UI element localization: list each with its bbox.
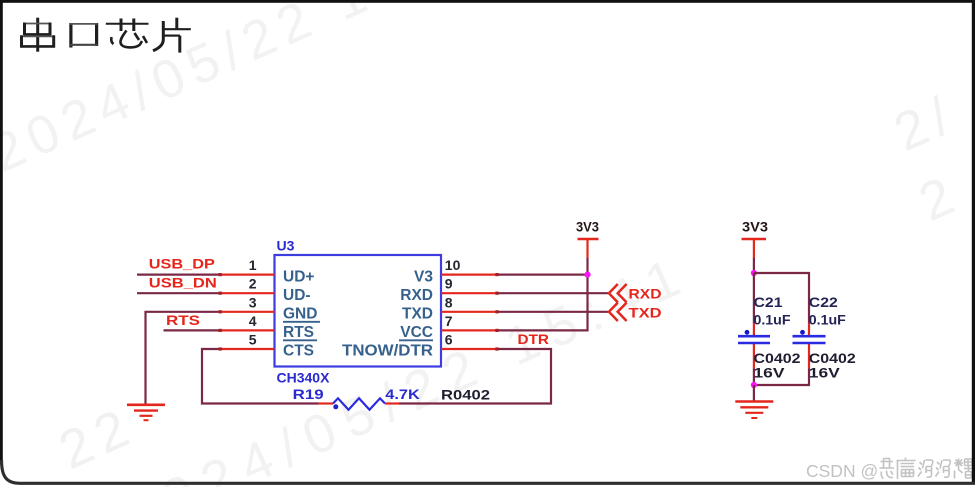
svg-text:3V3: 3V3 — [576, 220, 599, 235]
svg-text:R0402: R0402 — [441, 387, 490, 403]
off-sheet connector TXD chevrons — [609, 303, 627, 321]
svg-text:6: 6 — [445, 332, 453, 348]
svg-text:2: 2 — [249, 276, 257, 292]
svg-text:16V: 16V — [809, 365, 841, 381]
svg-text:V3: V3 — [414, 268, 433, 285]
svg-text:9: 9 — [445, 276, 453, 292]
resistor right stub — [385, 402, 399, 404]
pin 7 stub — [441, 329, 497, 331]
wire V3 to 3V3 junction — [497, 274, 588, 276]
svg-text:USB_DP: USB_DP — [149, 256, 215, 272]
watermark diagonal run E — [910, 163, 969, 233]
svg-text:VCC: VCC — [400, 324, 433, 341]
wire to ground (right) — [753, 385, 755, 402]
C21 red leads — [753, 323, 755, 369]
watermark diagonal run C — [885, 83, 965, 163]
watermark diagonal run D — [50, 395, 144, 481]
pin 4 stub — [220, 329, 275, 331]
chip U3 body — [275, 255, 442, 367]
svg-text:RTS: RTS — [283, 324, 314, 341]
title char 片 — [153, 18, 191, 53]
wire RXD — [497, 292, 608, 294]
svg-text:7: 7 — [445, 313, 453, 329]
pin 3 stub — [220, 311, 275, 313]
wire pin3 to ground — [146, 312, 221, 404]
svg-text:GND: GND — [283, 306, 317, 323]
svg-text:RXD: RXD — [400, 287, 433, 304]
pin 6 stub — [441, 348, 497, 350]
capacitor C22 plates — [793, 336, 826, 343]
wire cap loop top and right — [754, 273, 809, 323]
svg-text:4.7K: 4.7K — [385, 386, 420, 402]
svg-text:8: 8 — [445, 294, 453, 310]
svg-text:5: 5 — [249, 332, 257, 348]
frame bottom with rounded corner — [2, 460, 975, 483]
title char 串 — [21, 18, 55, 52]
svg-text:CH340X: CH340X — [277, 370, 331, 386]
svg-text:TXD: TXD — [402, 306, 433, 323]
CSDN CJK glyphs — [880, 458, 973, 480]
wire RTS to pin4 — [164, 329, 221, 331]
svg-text:RXD: RXD — [629, 286, 662, 302]
svg-text:C22: C22 — [809, 294, 838, 310]
pin 10 stub — [441, 274, 497, 276]
frame right — [972, 0, 975, 484]
svg-text:DTR: DTR — [518, 331, 550, 347]
svg-text:CTS: CTS — [283, 343, 314, 360]
title char 口 — [70, 23, 98, 48]
svg-text:R19: R19 — [293, 386, 324, 402]
power 3V3 (left) bar — [578, 238, 599, 241]
watermark diagonal run B — [115, 243, 699, 492]
pin 1 stub — [220, 274, 275, 276]
svg-text:UD-: UD- — [283, 287, 311, 304]
resistor R19 zigzag — [333, 398, 385, 409]
wire C22 lower lead — [754, 369, 809, 386]
power 3V3 (left) stub — [586, 239, 588, 258]
svg-text:U3: U3 — [277, 238, 295, 254]
frame left — [0, 0, 3, 462]
svg-text:3: 3 — [249, 294, 257, 310]
capacitor C22 pin dot — [800, 330, 805, 335]
pin 2 stub — [220, 292, 275, 294]
wire TXD — [497, 311, 608, 313]
frame top — [0, 0, 975, 3]
svg-text:0.1uF: 0.1uF — [809, 312, 846, 328]
off-sheet connector RXD chevrons — [609, 284, 627, 302]
resistor R1 left stub — [319, 402, 334, 404]
title char 芯 — [106, 19, 149, 48]
pin 9 stub — [441, 292, 497, 294]
svg-text:3V3: 3V3 — [742, 220, 769, 235]
wire C21 upper lead — [753, 273, 755, 323]
junction dot top — [751, 270, 757, 276]
svg-text:CSDN @: CSDN @ — [806, 461, 878, 481]
ground (right) — [735, 402, 773, 419]
C22 red leads — [808, 323, 810, 369]
wire bottom to DTR corner — [399, 349, 551, 404]
svg-text:RTS: RTS — [166, 312, 200, 328]
pin junction dots — [219, 273, 499, 351]
wire USB_DN to pin2 — [137, 292, 220, 294]
ground (left) — [127, 405, 165, 420]
junction dot bottom — [751, 382, 757, 388]
svg-text:0.1uF: 0.1uF — [754, 312, 791, 328]
pin 8 stub — [441, 311, 497, 313]
watermark diagonal run A — [0, 0, 508, 184]
wire C21 lower lead — [753, 369, 755, 386]
svg-text:16V: 16V — [754, 365, 786, 381]
svg-text:UD+: UD+ — [283, 268, 314, 285]
svg-text:TNOW/DTR: TNOW/DTR — [342, 343, 433, 360]
capacitor C21 plates — [738, 336, 770, 343]
wire 3V3 to junction — [753, 258, 755, 273]
svg-text:1: 1 — [249, 257, 257, 273]
power 3V3 (right) stub — [753, 239, 755, 258]
capacitor C21 pin dot — [745, 330, 750, 335]
svg-text:C21: C21 — [754, 294, 783, 310]
pin 5 stub — [220, 348, 275, 350]
power 3V3 (right) bar — [742, 238, 767, 241]
svg-text:10: 10 — [445, 257, 461, 273]
wire pin5 down to bottom — [202, 349, 319, 404]
junction dot V3/3V3 — [584, 272, 590, 278]
svg-text:4: 4 — [249, 313, 257, 329]
wire VCC to 3V3 vertical — [497, 258, 588, 330]
resistor junction dot — [333, 404, 338, 409]
svg-text:USB_DN: USB_DN — [149, 274, 217, 290]
svg-text:TXD: TXD — [629, 305, 662, 321]
wire USB_DP to pin1 — [137, 274, 220, 276]
